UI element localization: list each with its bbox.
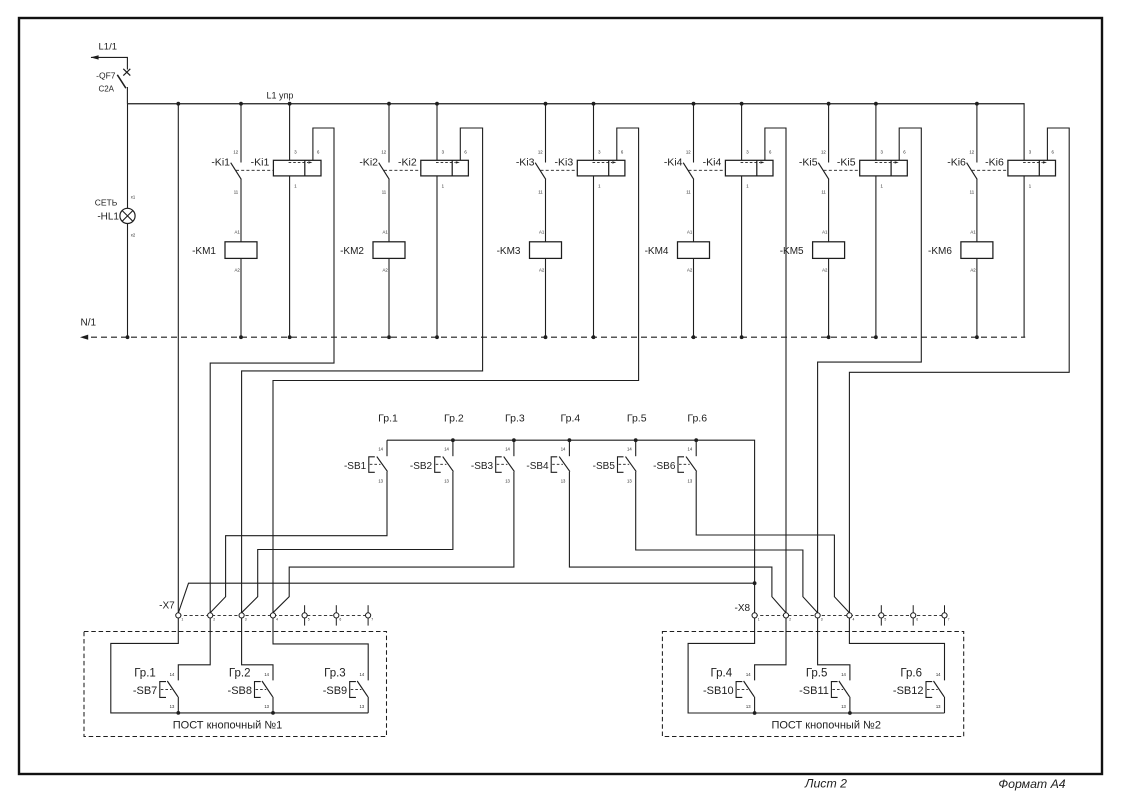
- node: bus junction at contact Ki6: [975, 102, 979, 106]
- node: N junction at KM3: [544, 335, 548, 339]
- svg-text:2: 2: [789, 617, 791, 621]
- relay box -Ki5: [837, 150, 907, 189]
- node: post1 common bus at SB8: [271, 711, 275, 715]
- svg-text:Гр.4: Гр.4: [561, 412, 581, 424]
- terminal X7:5 circle: [302, 613, 307, 618]
- wire: SB4 pin 13 down to terminal strip: [569, 472, 786, 613]
- mechanical link dashes Ki1: [236, 169, 273, 171]
- node: post1 common bus at SB7: [176, 711, 180, 715]
- wire L1/1 to QF7: [91, 57, 127, 69]
- svg-text:A2: A2: [687, 267, 693, 272]
- contact -Ki6 blade: [947, 156, 977, 179]
- svg-text:12: 12: [233, 149, 238, 154]
- node: N junction at relay Ki4: [740, 335, 744, 339]
- svg-text:-SB3: -SB3: [471, 461, 494, 472]
- node: bus junction at contact Ki5: [827, 102, 831, 106]
- svg-text:13: 13: [841, 704, 846, 709]
- node: bus junction L1 drop to X7: [176, 102, 180, 106]
- svg-text:14: 14: [378, 446, 383, 451]
- svg-text:-SB6: -SB6: [653, 461, 676, 472]
- wire: SB5 pin 13 down to terminal strip: [636, 472, 818, 613]
- enclosure: POST knopochny No.2 (dashed): [662, 632, 963, 737]
- wire: bus drop to relay Ki3 pin 3: [593, 104, 595, 161]
- wire: coil KM5 pin A2 to N: [828, 258, 830, 337]
- wire: relay Ki5 pin 1 to N: [875, 176, 877, 337]
- wire: SB8 pin 13 to post common bus: [272, 697, 274, 713]
- svg-text:-QF7: -QF7: [96, 71, 116, 81]
- wire: bus end corner drop to relay Ki6 pin 3: [1023, 103, 1025, 160]
- svg-text:Гр.5: Гр.5: [627, 412, 647, 424]
- svg-text:1: 1: [181, 617, 183, 621]
- wire: X8:4 to SB12 top (Gr.6): [849, 618, 944, 680]
- wire: relay Ki1 pin 1 to N: [289, 176, 291, 337]
- svg-text:14: 14: [444, 446, 449, 451]
- wire: contact Ki5 to coil KM5 pin A1: [828, 179, 830, 242]
- svg-text:13: 13: [746, 704, 751, 709]
- svg-text:-SB7: -SB7: [133, 685, 157, 697]
- node L1/1 incoming feed arrow: [91, 55, 99, 59]
- svg-text:Гр.2: Гр.2: [444, 412, 464, 424]
- node: N junction at KM5: [827, 335, 831, 339]
- svg-text:-SB11: -SB11: [799, 685, 829, 697]
- wire: neutral line N (dashed): [91, 336, 1025, 338]
- wire: SB3 pin 13 down to terminal strip: [273, 472, 514, 613]
- node: bus junction at relay Ki4: [740, 102, 744, 106]
- svg-text:14: 14: [936, 672, 941, 677]
- mechanical link dashes Ki4: [689, 169, 726, 171]
- wire: bus drop to relay Ki5 pin 3: [875, 104, 877, 161]
- node: bus junction at SB2: [451, 438, 455, 442]
- svg-text:ПОСТ кнопочный №2: ПОСТ кнопочный №2: [771, 720, 880, 732]
- node: N junction at relay Ki3: [592, 335, 596, 339]
- svg-text:L1/1: L1/1: [99, 42, 118, 53]
- wire: contact Ki3 to coil KM3 pin A1: [545, 179, 547, 242]
- svg-text:13: 13: [170, 704, 175, 709]
- terminal X8:6 circle: [911, 613, 916, 618]
- svg-text:-Ki6: -Ki6: [947, 156, 966, 168]
- svg-text:-Ki1: -Ki1: [251, 156, 270, 168]
- svg-text:7: 7: [371, 617, 373, 621]
- node: bus junction at relay Ki3: [592, 102, 596, 106]
- wire: X8:2 to SB10 top (Gr.4): [755, 618, 786, 680]
- node: post2 common bus at SB11: [848, 711, 852, 715]
- mechanical link dashes Ki3: [541, 169, 578, 171]
- terminal X8:3 circle: [815, 613, 820, 618]
- svg-text:N/1: N/1: [81, 318, 97, 329]
- mechanical link dashes Ki5: [824, 169, 860, 171]
- wire: coil KM3 pin A2 to N: [545, 258, 547, 337]
- svg-text:12: 12: [821, 149, 826, 154]
- wire: SB7 pin 13 to post common bus: [177, 697, 179, 713]
- wire: SB9 pin 13 to post common bus: [367, 697, 369, 713]
- wire: relay Ki3 pin 6 over and down to terminal strip: [273, 128, 639, 613]
- terminal X8:5 circle: [879, 613, 884, 618]
- wire: lamp HL1 to N: [127, 224, 129, 338]
- svg-text:1: 1: [758, 617, 760, 621]
- pushbutton -SB6: [653, 440, 697, 483]
- svg-text:Гр.2: Гр.2: [229, 668, 251, 680]
- svg-text:-Ki6: -Ki6: [985, 156, 1004, 168]
- wire: bus drop to contact Ki1: [240, 104, 242, 163]
- pushbutton -SB1: [344, 440, 388, 483]
- svg-text:-X7: -X7: [159, 601, 175, 612]
- wire: control bus L1 upr: [127, 103, 1024, 105]
- svg-text:-X8: -X8: [735, 603, 751, 614]
- wire: contact Ki4 to coil KM4 pin A1: [693, 179, 695, 242]
- svg-text:-HL1: -HL1: [97, 212, 119, 223]
- pushbutton -SB12: [893, 672, 944, 709]
- svg-text:13: 13: [688, 478, 693, 483]
- svg-text:12: 12: [381, 149, 386, 154]
- svg-text:-Ki5: -Ki5: [799, 156, 818, 168]
- terminal X7:5 spare stubs: [304, 605, 306, 613]
- wire: relay Ki2 pin 6 over and down to terminal strip: [242, 128, 483, 613]
- svg-text:12: 12: [969, 149, 974, 154]
- terminal X8:7 spare stubs: [944, 605, 946, 613]
- node: bus junction at contact Ki2: [387, 102, 391, 106]
- svg-text:13: 13: [936, 704, 941, 709]
- wire: X7:3 to SB8 top (Gr.2): [242, 618, 273, 680]
- svg-text:-Ki2: -Ki2: [359, 156, 378, 168]
- wire: SB6 pin 13 down to terminal strip: [696, 472, 849, 613]
- wire: coil KM4 pin A2 to N: [693, 258, 695, 337]
- svg-text:СЕТЬ: СЕТЬ: [95, 197, 118, 207]
- svg-text:-KM4: -KM4: [645, 246, 669, 257]
- wire: relay Ki2 pin 1 to N: [436, 176, 438, 337]
- terminal X8:5 spare stubs: [880, 605, 882, 613]
- node: bus junction at SB5: [634, 438, 638, 442]
- wire: riser into terminal X8:1: [754, 583, 756, 613]
- node: N junction at KM2: [387, 335, 391, 339]
- svg-text:Гр.3: Гр.3: [505, 412, 525, 424]
- terminal X8:4 circle: [847, 613, 852, 618]
- wire: X8:1 into post 2 (L1 common): [688, 618, 944, 713]
- coil -KM3: [497, 230, 562, 273]
- svg-text:7: 7: [948, 617, 950, 621]
- svg-text:14: 14: [627, 446, 632, 451]
- wire: bus drop to contact Ki2: [388, 104, 390, 163]
- mechanical link dashes Ki2: [384, 169, 421, 171]
- wire: contact Ki6 to coil KM6 pin A1: [976, 179, 978, 242]
- node: N junction at KM4: [692, 335, 696, 339]
- svg-text:Гр.1: Гр.1: [134, 668, 156, 680]
- node: post2 common bus at SB10: [753, 711, 757, 715]
- terminal X7:6 circle: [334, 613, 339, 618]
- svg-text:11: 11: [382, 189, 387, 194]
- svg-text:-SB8: -SB8: [228, 685, 252, 697]
- svg-text:Формат А4: Формат А4: [998, 777, 1065, 791]
- wire: relay Ki5 pin 6 over and down to terminal strip: [818, 128, 922, 613]
- svg-text:A1: A1: [539, 230, 545, 235]
- svg-text:-SB9: -SB9: [323, 685, 347, 697]
- node: N junction at HL1: [126, 335, 130, 339]
- wire: X8:3 to SB11 top (Gr.5): [818, 618, 850, 680]
- pushbutton -SB2: [410, 440, 454, 483]
- svg-text:Гр.6: Гр.6: [900, 668, 922, 680]
- svg-text:13: 13: [505, 478, 510, 483]
- contact -Ki2 blade: [359, 156, 389, 179]
- wire: relay Ki4 pin 6 over and down to terminal strip: [765, 128, 786, 613]
- node: N junction at KM6: [975, 335, 979, 339]
- node N/1 incoming feed arrow: [80, 335, 88, 340]
- relay box -Ki2: [398, 150, 468, 189]
- svg-text:A2: A2: [822, 267, 828, 272]
- terminal X7:4 circle: [270, 613, 275, 618]
- svg-text:A1: A1: [383, 230, 389, 235]
- svg-text:-SB10: -SB10: [703, 685, 734, 697]
- coil -KM6: [928, 230, 993, 273]
- wire: bus drop to contact Ki6: [976, 104, 978, 163]
- svg-text:2: 2: [213, 617, 215, 621]
- svg-text:-Ki3: -Ki3: [555, 156, 574, 168]
- svg-text:13: 13: [627, 478, 632, 483]
- terminal X8:1 circle: [752, 613, 757, 618]
- svg-text:-KM6: -KM6: [928, 246, 952, 257]
- wire: long L1 link from X7:1 to X8:1: [178, 583, 754, 613]
- coil -KM2: [340, 230, 405, 273]
- svg-text:ПОСТ кнопочный №1: ПОСТ кнопочный №1: [173, 720, 282, 732]
- svg-text:13: 13: [444, 478, 449, 483]
- svg-text:13: 13: [561, 478, 566, 483]
- svg-text:11: 11: [234, 189, 239, 194]
- svg-text:6: 6: [916, 617, 918, 621]
- svg-text:11: 11: [538, 189, 543, 194]
- node: bus junction at contact Ki3: [544, 102, 548, 106]
- wire: contact Ki1 to coil KM1 pin A1: [240, 179, 242, 242]
- svg-text:-Ki1: -Ki1: [211, 156, 230, 168]
- node: bus junction at SB4: [568, 438, 572, 442]
- terminal strip -X8 dashed line: [755, 614, 945, 616]
- wire: X7:4 to SB9 top (Gr.3): [273, 618, 368, 680]
- node: bus junction at contact Ki4: [692, 102, 696, 106]
- contact -Ki4 blade: [664, 156, 694, 179]
- coil -KM1: [192, 230, 257, 273]
- svg-text:6: 6: [339, 617, 341, 621]
- wire: relay Ki6 pin 6 over and down to terminal strip: [849, 128, 1069, 613]
- svg-text:Гр.3: Гр.3: [324, 668, 346, 680]
- svg-text:13: 13: [264, 704, 269, 709]
- terminal X8:7 circle: [942, 613, 947, 618]
- terminal X8:6 spare stubs: [912, 605, 914, 613]
- terminal X7:6 spare stubs: [335, 605, 337, 613]
- svg-text:A2: A2: [539, 267, 545, 272]
- svg-text:Гр.1: Гр.1: [378, 412, 398, 424]
- node: bus junction at SB6: [694, 438, 698, 442]
- svg-text:14: 14: [841, 672, 846, 677]
- svg-text:A2: A2: [235, 267, 241, 272]
- wire: SB10 pin 13 to post common bus: [754, 697, 756, 713]
- svg-text:C2A: C2A: [98, 84, 114, 93]
- svg-text:4: 4: [276, 617, 278, 621]
- node: N junction at relay Ki2: [435, 335, 439, 339]
- svg-text:-SB12: -SB12: [893, 685, 924, 697]
- wire: relay Ki6 pin 1 to N: [1023, 176, 1025, 337]
- svg-text:A1: A1: [970, 230, 976, 235]
- svg-text:14: 14: [561, 446, 566, 451]
- wire: pushbutton supply bus from X8:1 riser: [387, 440, 755, 583]
- svg-text:14: 14: [688, 446, 693, 451]
- pushbutton -SB8: [228, 672, 273, 709]
- svg-text:14: 14: [170, 672, 175, 677]
- pushbutton -SB5: [593, 440, 637, 483]
- wire: SB11 pin 13 to post common bus: [849, 697, 851, 713]
- terminal X8:2 circle: [783, 613, 788, 618]
- wire: bus drop to contact Ki5: [828, 104, 830, 163]
- svg-text:3: 3: [821, 617, 823, 621]
- wire: bus drop to relay Ki4 pin 3: [741, 104, 743, 161]
- svg-text:-Ki2: -Ki2: [398, 156, 417, 168]
- pushbutton -SB10: [703, 672, 754, 709]
- wire: contact Ki2 to coil KM2 pin A1: [388, 179, 390, 242]
- wire: bus to lamp HL1: [127, 104, 129, 209]
- svg-text:11: 11: [821, 189, 826, 194]
- pushbutton -SB7: [133, 672, 178, 709]
- svg-text:-SB2: -SB2: [410, 461, 433, 472]
- wire: coil KM6 pin A2 to N: [976, 258, 978, 337]
- terminal X7:3 circle: [239, 613, 244, 618]
- terminal X7:7 spare stubs: [367, 605, 369, 613]
- wire: X7:1 into post 1 (L1 common): [111, 618, 368, 713]
- relay box -Ki1: [251, 150, 321, 189]
- wire: coil KM1 pin A2 to N: [240, 258, 242, 337]
- node: N junction at KM1: [239, 335, 243, 339]
- node: bus junction at relay Ki1: [288, 102, 292, 106]
- svg-text:14: 14: [264, 672, 269, 677]
- svg-text:11: 11: [686, 189, 691, 194]
- svg-text:Лист 2: Лист 2: [804, 777, 847, 791]
- node: N junction at relay Ki1: [288, 335, 292, 339]
- wire: bus drop to contact Ki4: [693, 104, 695, 163]
- terminal X7:1 circle: [176, 613, 181, 618]
- svg-text:-SB4: -SB4: [526, 461, 549, 472]
- svg-text:-KM3: -KM3: [497, 246, 521, 257]
- pushbutton -SB11: [799, 672, 849, 709]
- wire: coil KM2 pin A2 to N: [388, 258, 390, 337]
- wire: relay Ki3 pin 1 to N: [593, 176, 595, 337]
- terminal strip -X7 dashed line: [178, 614, 368, 616]
- coil -KM5: [780, 230, 845, 273]
- pushbutton -SB9: [323, 672, 368, 709]
- svg-text:3: 3: [245, 617, 247, 621]
- lamp HL1 (SET indicator): [95, 195, 136, 238]
- wire: SB2 pin 13 down to terminal strip: [242, 472, 453, 613]
- svg-text:-Ki4: -Ki4: [703, 156, 722, 168]
- node: bus junction at SB3: [512, 438, 516, 442]
- mechanical link dashes Ki6: [972, 169, 1008, 171]
- svg-text:-KM1: -KM1: [192, 246, 216, 257]
- svg-text:-Ki3: -Ki3: [516, 156, 535, 168]
- svg-text:A1: A1: [822, 230, 828, 235]
- enclosure: POST knopochny No.1 (dashed): [84, 632, 387, 737]
- svg-text:Гр.6: Гр.6: [687, 412, 707, 424]
- relay box -Ki3: [555, 150, 625, 189]
- wire: relay Ki1 pin 6 over and down to terminal strip: [210, 128, 334, 613]
- svg-text:4: 4: [853, 617, 855, 621]
- wire: relay Ki4 pin 1 to N: [741, 176, 743, 337]
- svg-text:5: 5: [308, 617, 310, 621]
- svg-text:Гр.5: Гр.5: [806, 668, 828, 680]
- svg-text:11: 11: [970, 189, 975, 194]
- node: bus junction at contact Ki1: [239, 102, 243, 106]
- contact -Ki1 blade: [211, 156, 241, 179]
- wire: bus drop to relay Ki1 pin 3: [289, 104, 291, 161]
- svg-text:13: 13: [360, 704, 365, 709]
- pushbutton -SB4: [526, 440, 570, 483]
- svg-text:Гр.4: Гр.4: [711, 668, 733, 680]
- node: N junction at relay Ki5: [874, 335, 878, 339]
- svg-text:-KM2: -KM2: [340, 246, 364, 257]
- svg-text:12: 12: [686, 149, 691, 154]
- wire: L1 drop from bus to terminal X7:1: [177, 104, 179, 613]
- contact -Ki3 blade: [516, 156, 546, 179]
- svg-text:х1: х1: [131, 195, 136, 200]
- svg-text:14: 14: [746, 672, 751, 677]
- svg-text:A2: A2: [970, 267, 976, 272]
- contact -Ki5 blade: [799, 156, 829, 179]
- svg-text:14: 14: [360, 672, 365, 677]
- svg-text:5: 5: [884, 617, 886, 621]
- circuit breaker QF7: [96, 69, 130, 104]
- svg-text:-SB1: -SB1: [344, 461, 367, 472]
- relay box -Ki6: [985, 150, 1055, 189]
- svg-text:13: 13: [378, 478, 383, 483]
- svg-text:-Ki5: -Ki5: [837, 156, 856, 168]
- terminal X7:7 circle: [366, 613, 371, 618]
- relay box -Ki4: [703, 150, 773, 189]
- svg-text:A2: A2: [383, 267, 389, 272]
- wire: bus drop to contact Ki3: [545, 104, 547, 163]
- wire: SB12 pin 13 to post common bus: [944, 697, 946, 713]
- svg-text:L1 упр: L1 упр: [267, 91, 294, 101]
- node: bus junction at relay Ki5: [874, 102, 878, 106]
- svg-text:14: 14: [505, 446, 510, 451]
- svg-text:х2: х2: [131, 232, 136, 237]
- svg-text:-SB5: -SB5: [593, 461, 616, 472]
- wire: bus drop to relay Ki2 pin 3: [436, 104, 438, 161]
- svg-text:A1: A1: [235, 230, 241, 235]
- svg-text:12: 12: [538, 149, 543, 154]
- coil -KM4: [645, 230, 710, 273]
- wire: SB1 pin 13 down to terminal strip: [210, 472, 387, 613]
- svg-text:-KM5: -KM5: [780, 246, 804, 257]
- wire: X7:2 to SB7 top (Gr.1): [178, 618, 210, 680]
- terminal X7:2 circle: [208, 613, 213, 618]
- svg-text:-Ki4: -Ki4: [664, 156, 683, 168]
- node: bus junction at relay Ki2: [435, 102, 439, 106]
- node: junction L1 riser / X8:1 / long link: [753, 581, 757, 585]
- pushbutton -SB3: [471, 440, 515, 483]
- svg-text:A1: A1: [687, 230, 693, 235]
